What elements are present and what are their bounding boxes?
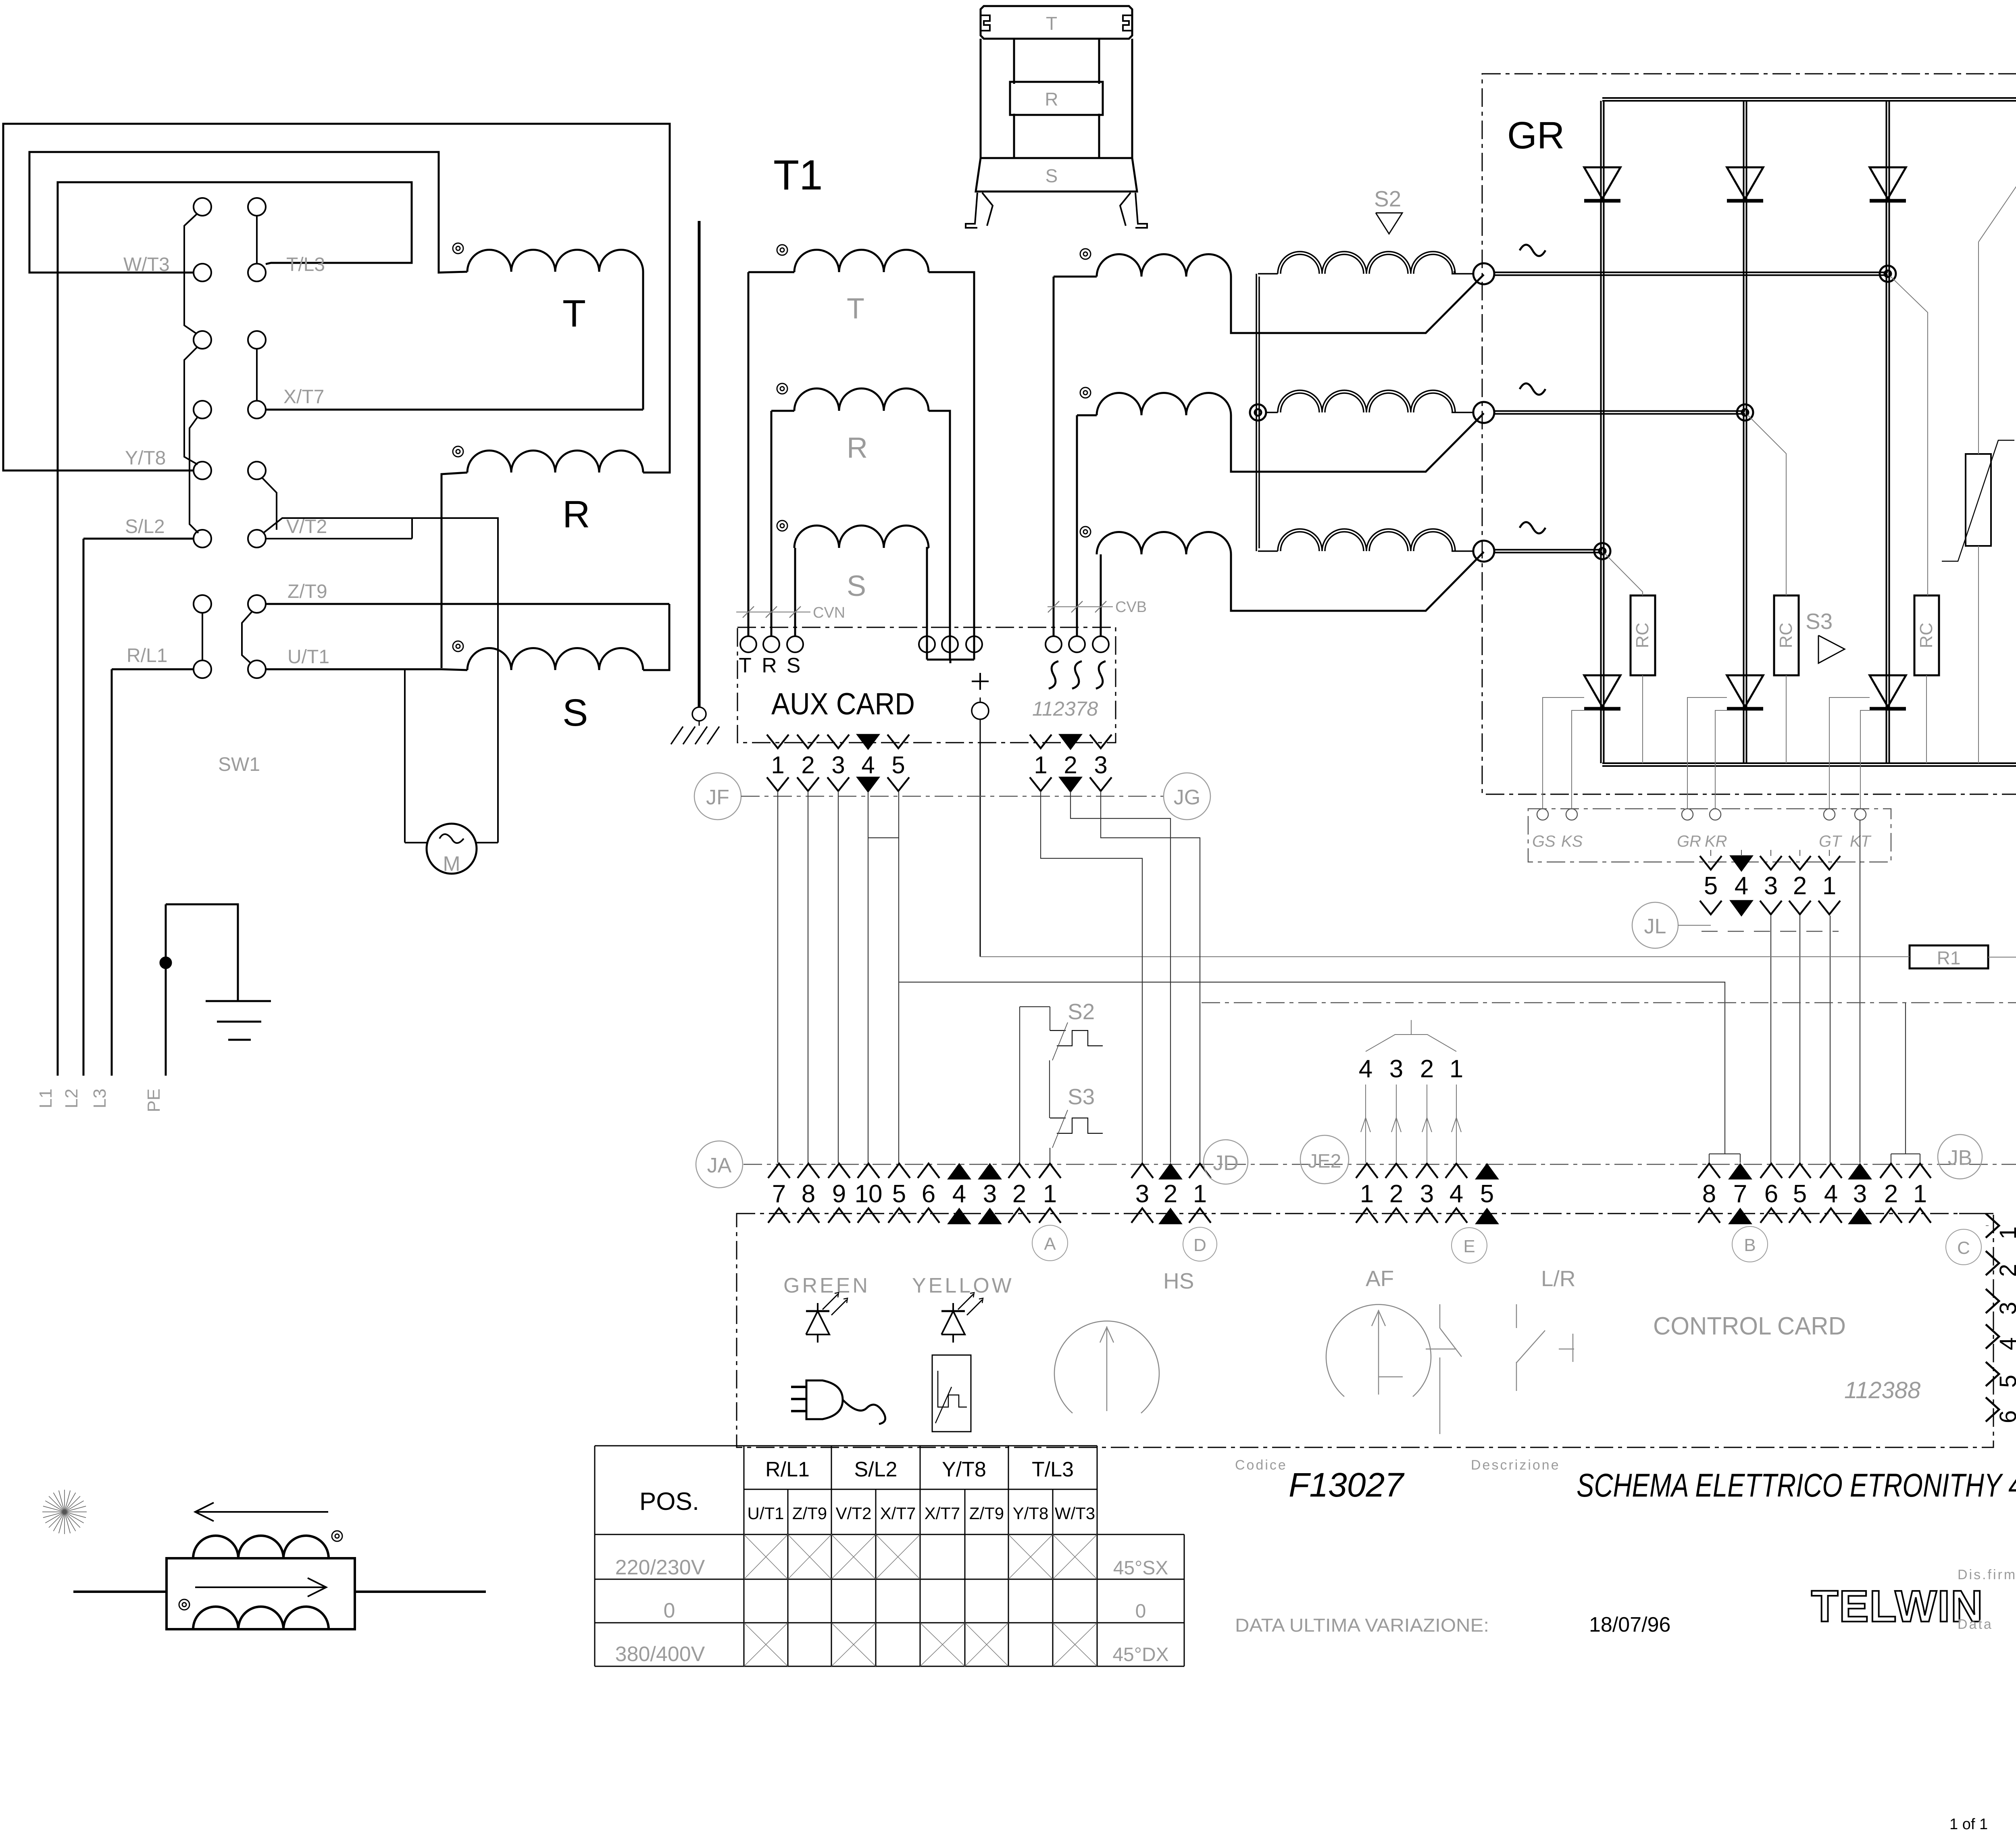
- JB 2-1 bracket: [1891, 1003, 1920, 1163]
- svg-text:1: 1: [1913, 1180, 1927, 1208]
- LED green: [806, 1293, 848, 1343]
- earth terminal circle: [692, 707, 706, 721]
- svg-text:L2: L2: [62, 1089, 81, 1108]
- wire JA2 to S2: [1020, 1007, 1050, 1164]
- svg-text:T/L3: T/L3: [286, 254, 325, 275]
- switch at AF: [1426, 1304, 1462, 1434]
- svg-text:9: 9: [832, 1180, 846, 1208]
- svg-text:2: 2: [1793, 872, 1807, 900]
- wire JF1-JA7: [777, 791, 778, 1163]
- svg-text:4: 4: [1995, 1337, 2016, 1350]
- label CONTROL CARD: [1653, 1312, 1846, 1340]
- svg-text:T/L3: T/L3: [1032, 1458, 1074, 1481]
- connector C circle: [1946, 1229, 1981, 1265]
- sensor stubs: [73, 1591, 486, 1593]
- T1 winding R: [771, 389, 950, 660]
- winding T (primary): [266, 250, 643, 410]
- T1 winding S2 dot: [1080, 527, 1091, 537]
- winding R (primary): [442, 451, 670, 668]
- wire V/T2 to motor right: [263, 518, 498, 843]
- wire JF4-JA10: [868, 792, 899, 1163]
- winding S (primary): [442, 604, 669, 670]
- svg-text:1 of 1: 1 of 1: [1949, 1816, 1988, 1832]
- svg-text:R/L1: R/L1: [127, 645, 167, 666]
- connector JB circle: [1938, 1135, 1982, 1179]
- line L2: [83, 539, 85, 1076]
- connector E circle: [1452, 1228, 1487, 1263]
- table label 0 right: [1135, 1601, 1146, 1622]
- wire to frame ground: [699, 721, 700, 726]
- table row label 0: [664, 1599, 675, 1622]
- svg-text:5: 5: [891, 752, 905, 779]
- label Dis.firma: [1958, 1567, 2016, 1582]
- svg-text:Z/T9: Z/T9: [969, 1504, 1004, 1523]
- label SW1: [218, 754, 260, 775]
- title SCHEMA ELETTRICO ETRONITHY 400: [1577, 1467, 2016, 1504]
- AC input node 3: [1473, 541, 1494, 562]
- svg-text:4: 4: [1450, 1180, 1463, 1208]
- SCR 1 (bottom): [1584, 675, 1620, 709]
- wire loop W/T3 to T-coil (second rectangle): [29, 152, 467, 273]
- T1 winding T dot: [777, 245, 787, 255]
- wire L2 to S/L2 contact: [83, 538, 194, 540]
- svg-text:Z/T9: Z/T9: [792, 1504, 827, 1523]
- T1 winding R2 dot: [1080, 387, 1091, 398]
- svg-text:L1: L1: [36, 1089, 56, 1108]
- SW1 link row3-row4 right: [256, 349, 258, 401]
- label T/L3: [286, 254, 325, 275]
- svg-text:JA: JA: [707, 1154, 732, 1177]
- T1 core middle bar: [1010, 82, 1103, 115]
- terminal T (CVN): [739, 636, 756, 677]
- AUX CARD boundary: [737, 627, 1116, 743]
- line PE with junction: [160, 904, 171, 1076]
- svg-text:Codice: Codice: [1235, 1457, 1287, 1473]
- svg-text:45°DX: 45°DX: [1112, 1644, 1168, 1665]
- svg-text:CONTROL CARD: CONTROL CARD: [1653, 1312, 1846, 1340]
- svg-text:S/L2: S/L2: [125, 516, 165, 537]
- svg-text:S2: S2: [1374, 186, 1401, 211]
- AC wire row 3 (double line): [1494, 550, 1602, 553]
- gate wire GS: [1543, 697, 1584, 809]
- svg-text:W/T3: W/T3: [1055, 1504, 1095, 1523]
- svg-text:6: 6: [1995, 1410, 2016, 1423]
- AC junction bullseye 1: [1880, 266, 1896, 282]
- label Z/T9: [287, 581, 327, 602]
- svg-text:JB: JB: [1948, 1146, 1972, 1170]
- sensor dots: [179, 1531, 342, 1610]
- svg-text:U/T1: U/T1: [747, 1504, 784, 1523]
- RC2 feed wire: [1747, 415, 1786, 595]
- label R (winding): [562, 493, 590, 536]
- svg-text:Z/T9: Z/T9: [287, 581, 327, 602]
- svg-text:SCHEMA ELETTRICO ETRONITHY 400: SCHEMA ELETTRICO ETRONITHY 400: [1577, 1467, 2016, 1504]
- svg-text:S/L2: S/L2: [854, 1458, 898, 1481]
- T1 winding R2: [1077, 393, 1484, 636]
- label Y/T8: [125, 448, 166, 469]
- svg-text:R: R: [762, 654, 777, 677]
- svg-text:7: 7: [772, 1180, 786, 1208]
- cathode wire KS: [1572, 710, 1600, 809]
- svg-text:T: T: [1046, 13, 1057, 34]
- snubber RC1: [1631, 595, 1655, 763]
- table label POS.: [639, 1488, 699, 1516]
- connector JD circle: [1204, 1140, 1248, 1184]
- T1 core top bar: [981, 6, 1132, 39]
- svg-text:3: 3: [1995, 1302, 2016, 1315]
- svg-text:KT: KT: [1850, 833, 1872, 850]
- table X marks row1: [744, 1534, 1097, 1579]
- potentiometer AF: [1326, 1305, 1431, 1397]
- switch SW1 contact circles: [194, 198, 266, 678]
- CVB cut line: [1048, 599, 1147, 616]
- connector JL circle: [1632, 902, 1711, 948]
- sensor box: [167, 1558, 355, 1629]
- svg-text:3: 3: [1094, 752, 1107, 779]
- svg-text:R: R: [847, 432, 868, 464]
- svg-text:18/07/96: 18/07/96: [1589, 1613, 1670, 1636]
- svg-text:Y/T8: Y/T8: [1013, 1504, 1049, 1523]
- T1 winding T2: [1054, 254, 1484, 636]
- label 112388: [1844, 1377, 1920, 1403]
- connector JF circle: [694, 773, 741, 820]
- wire aux+ to R1: [980, 956, 1910, 957]
- AC wire row 2 (double line): [1494, 411, 1745, 414]
- T1 winding S dot: [777, 520, 787, 531]
- svg-text:Y/T8: Y/T8: [942, 1458, 986, 1481]
- cathode wire KT: [1860, 710, 1885, 809]
- label R/L1: [127, 645, 167, 666]
- svg-text:6: 6: [922, 1180, 935, 1208]
- TELWIN logo: [1811, 1582, 1984, 1631]
- aux + output circle: [972, 697, 989, 957]
- sunburst mark 2: [42, 1490, 87, 1534]
- wire loop Y/T8 to R-coil (outer rectangle): [3, 124, 670, 473]
- label S (winding): [562, 691, 588, 734]
- RC1 feed wire: [1605, 554, 1643, 595]
- svg-text:8: 8: [802, 1180, 815, 1208]
- T1 label S: [847, 570, 866, 602]
- svg-text:L3: L3: [90, 1089, 110, 1108]
- cathode wire KR: [1715, 710, 1743, 809]
- aux + output marker: [972, 673, 989, 690]
- secondary winding R (double line): [1266, 390, 1473, 412]
- svg-text:1: 1: [1450, 1055, 1463, 1083]
- JE2 harness bracket: [1366, 1020, 1456, 1051]
- connector JC pins and wires to JH: [1986, 1214, 2016, 1423]
- table headers: [765, 1458, 1074, 1481]
- ~ mark 1: [1520, 245, 1545, 256]
- bridge column 2 (double line): [1744, 101, 1747, 763]
- svg-text:X/T7: X/T7: [880, 1504, 916, 1523]
- svg-text:CVB: CVB: [1115, 599, 1147, 616]
- gate wire GT: [1829, 697, 1870, 809]
- svg-text:KS: KS: [1561, 833, 1583, 850]
- svg-text:10: 10: [855, 1180, 883, 1208]
- secondary winding S (double line): [1258, 529, 1473, 551]
- connector JG pins: [1030, 735, 1112, 792]
- svg-text:380/400V: 380/400V: [615, 1643, 705, 1666]
- bridge column 1 (double line): [1601, 101, 1604, 763]
- T1 winding T: [748, 250, 974, 660]
- snubber RC3: [1914, 595, 1939, 763]
- label Descrizione: [1471, 1457, 1560, 1473]
- svg-text:B: B: [1744, 1235, 1756, 1255]
- connector line JA-JD-JE2-JB-JC: [744, 1164, 2016, 1165]
- T1 core legs: [966, 193, 1147, 228]
- diode D3 (top): [1870, 167, 1906, 201]
- svg-text:112388: 112388: [1844, 1377, 1920, 1403]
- wire KT to JB3: [1860, 820, 1860, 1163]
- motor M: [427, 824, 477, 876]
- secondary star-point bus: [1256, 274, 1259, 551]
- table X marks row3: [744, 1623, 1097, 1666]
- svg-text:T1: T1: [773, 152, 823, 199]
- svg-text:V/T2: V/T2: [286, 516, 327, 537]
- wire JG2-JD2: [1070, 791, 1170, 1163]
- table grid: [595, 1446, 1184, 1666]
- label Codice: [1235, 1457, 1287, 1473]
- svg-text:E: E: [1463, 1237, 1475, 1256]
- wire JF3-JA9: [838, 791, 839, 1163]
- table subheaders: [747, 1504, 1095, 1523]
- T1 core bottom skirt: [976, 158, 1137, 192]
- JE2 harness continuation arrows: [1359, 1055, 1463, 1163]
- label U/T1: [287, 646, 329, 668]
- svg-text:3: 3: [983, 1180, 997, 1208]
- code F13027: [1289, 1466, 1405, 1504]
- label PE: [144, 1089, 164, 1112]
- svg-text:2: 2: [1164, 1180, 1177, 1208]
- ~ mark 2: [1520, 383, 1545, 395]
- ground (earth) symbol: [206, 1001, 271, 1040]
- T1 winding S2: [1097, 532, 1484, 637]
- arrow left (sensor): [195, 1503, 328, 1521]
- svg-text:2: 2: [1389, 1180, 1403, 1208]
- svg-text:Data: Data: [1958, 1617, 1993, 1632]
- svg-text:GREEN: GREEN: [783, 1274, 870, 1297]
- dash-dot mid line: [1202, 1002, 2016, 1003]
- svg-text:4: 4: [1735, 872, 1748, 900]
- svg-text:RC: RC: [1633, 622, 1652, 648]
- svg-text:DATA ULTIMA VARIAZIONE:: DATA ULTIMA VARIAZIONE:: [1235, 1615, 1489, 1636]
- svg-text:2: 2: [1995, 1264, 2016, 1277]
- svg-text:3: 3: [831, 752, 845, 779]
- winding R polarity dot: [453, 446, 463, 457]
- svg-text:5: 5: [1995, 1375, 2016, 1388]
- connector D circle: [1183, 1227, 1217, 1261]
- svg-text:S: S: [1045, 165, 1058, 186]
- line L3: [111, 669, 113, 1076]
- switch L/R: [1516, 1304, 1574, 1391]
- svg-text:X/T7: X/T7: [283, 386, 324, 408]
- label V/T2: [286, 516, 327, 537]
- SW1 blade row1-row3 left: [184, 214, 197, 334]
- junction (star point): [1250, 404, 1266, 421]
- JL connector line: [1702, 931, 1839, 932]
- svg-text:5: 5: [1793, 1180, 1807, 1208]
- sensor coil bottom: [193, 1607, 329, 1629]
- page number 1 of 1 (center): [1949, 1816, 1988, 1832]
- svg-text:RC: RC: [1916, 622, 1936, 648]
- label GR: [1507, 114, 1565, 157]
- label S3 and marker: [1806, 609, 1845, 663]
- wire JG3-JD1: [1101, 791, 1200, 1163]
- svg-text:V/T2: V/T2: [836, 1504, 872, 1523]
- date 18/07/96: [1589, 1613, 1670, 1636]
- positive bus (bottom, double line): [1602, 763, 2016, 766]
- gate wire GR: [1687, 697, 1727, 809]
- svg-text:Dis.firma: Dis.firma: [1958, 1567, 2016, 1582]
- svg-text:5: 5: [892, 1180, 906, 1208]
- connector JA circle: [696, 1141, 743, 1188]
- svg-text:GR: GR: [1507, 114, 1565, 157]
- svg-text:JL: JL: [1644, 915, 1666, 938]
- label T (winding): [562, 292, 586, 335]
- T1 winding T2 dot: [1080, 249, 1091, 259]
- SW1 blade row5 right to V/T2: [262, 478, 277, 530]
- svg-text:S3: S3: [1806, 609, 1833, 634]
- SW1 link row1-row2 right (T/L3): [256, 216, 258, 264]
- CVN cut line: [736, 604, 845, 621]
- wires JL to JB: [1771, 916, 1830, 1163]
- svg-text:POS.: POS.: [639, 1488, 699, 1516]
- svg-text:1: 1: [1360, 1180, 1374, 1208]
- bridge column 3 (double line): [1887, 101, 1889, 763]
- table label 45 DX: [1112, 1644, 1168, 1665]
- svg-text:2: 2: [801, 752, 814, 779]
- T1 core label T: [1046, 13, 1057, 34]
- svg-text:A: A: [1044, 1234, 1056, 1254]
- switch S3: [1050, 1084, 1103, 1148]
- svg-text:KR: KR: [1705, 833, 1727, 850]
- secondary winding T (double line): [1258, 252, 1473, 274]
- SW1 link row7-row8 left: [202, 613, 203, 660]
- AC input node 2: [1473, 402, 1494, 423]
- svg-text:220/230V: 220/230V: [615, 1556, 705, 1579]
- wire U/T1 node: [266, 668, 442, 670]
- svg-text:R/L1: R/L1: [765, 1458, 810, 1481]
- svg-text:4: 4: [861, 752, 875, 779]
- wire loop T/L3 to line L1 (third rectangle) and line L1: [58, 182, 412, 1076]
- svg-text:4: 4: [1824, 1180, 1838, 1208]
- wire horizontal to JB7-8: [899, 982, 1725, 1154]
- AC wire row 1 (double line): [1494, 273, 1888, 275]
- T1 core verticals: [981, 39, 1132, 158]
- label GREEN: [783, 1274, 870, 1297]
- svg-text:PE: PE: [144, 1089, 164, 1112]
- svg-text:112378: 112378: [1032, 697, 1098, 720]
- svg-text:GT: GT: [1819, 833, 1842, 850]
- diode D2 (top): [1727, 167, 1763, 201]
- svg-text:C: C: [1957, 1238, 1970, 1258]
- sensor coil top: [193, 1536, 329, 1558]
- svg-text:4: 4: [1359, 1055, 1372, 1083]
- JF JG connector line: [741, 796, 1164, 797]
- label Data: [1958, 1617, 1993, 1632]
- svg-text:U/T1: U/T1: [287, 646, 329, 668]
- varistor: [1942, 108, 2016, 763]
- SW1 blade row4-row6 left: [190, 416, 198, 533]
- table label 45 SX: [1113, 1557, 1168, 1579]
- label L3: [90, 1089, 110, 1108]
- svg-text:W/T3: W/T3: [123, 254, 170, 275]
- AC junction bullseye 2: [1737, 404, 1753, 421]
- svg-text:3: 3: [1389, 1055, 1403, 1083]
- connector JB pins: [1698, 1164, 1931, 1224]
- svg-text:T: T: [562, 292, 586, 335]
- CVN secondary join: [919, 636, 982, 663]
- svg-text:M: M: [443, 852, 460, 876]
- svg-text:JG: JG: [1174, 786, 1200, 809]
- svg-text:AF: AF: [1366, 1266, 1394, 1291]
- wire R1 to plus node: [1988, 770, 2016, 957]
- svg-text:2: 2: [1884, 1180, 1898, 1208]
- T1 winding S: [794, 526, 929, 660]
- svg-text:R: R: [1045, 89, 1058, 110]
- svg-text:S: S: [847, 570, 866, 602]
- svg-text:3: 3: [1853, 1180, 1867, 1208]
- label HS: [1163, 1268, 1194, 1293]
- svg-text:RC: RC: [1776, 622, 1796, 648]
- SCR 2 (bottom): [1727, 675, 1763, 709]
- svg-text:JD: JD: [1213, 1151, 1239, 1175]
- wire motor left: [405, 669, 428, 843]
- svg-text:S: S: [787, 654, 801, 677]
- GR boundary box: [1482, 74, 2016, 794]
- svg-text:0: 0: [664, 1599, 675, 1622]
- svg-text:GR: GR: [1677, 833, 1701, 850]
- wire JG1-JD3: [1041, 791, 1142, 1163]
- thermostat box: [932, 1355, 971, 1432]
- RC3 feed wire: [1890, 276, 1928, 595]
- wire L3 to R/L1 contact: [112, 668, 194, 670]
- svg-text:1: 1: [1822, 872, 1836, 900]
- diode D1 (top): [1584, 167, 1620, 201]
- svg-text:1: 1: [1995, 1226, 2016, 1239]
- wire PE to earth: [166, 904, 238, 1001]
- connector JG circle: [1164, 773, 1210, 820]
- SW1 blade row3-row5 left: [184, 347, 198, 464]
- wire S3 to JA1: [1050, 1148, 1050, 1164]
- terminal R (CVN): [762, 636, 779, 677]
- svg-text:X/T7: X/T7: [925, 1504, 960, 1523]
- ~ mark 3: [1520, 522, 1545, 533]
- svg-text:F13027: F13027: [1289, 1466, 1405, 1504]
- mains plug symbol: [791, 1380, 885, 1424]
- svg-text:S2: S2: [1068, 999, 1095, 1024]
- svg-text:2: 2: [1012, 1180, 1026, 1208]
- label AUX CARD: [771, 687, 915, 721]
- winding T polarity dot: [453, 243, 463, 254]
- svg-text:6: 6: [1764, 1180, 1778, 1208]
- svg-text:5: 5: [1704, 872, 1718, 900]
- table row label 220/230V: [615, 1556, 705, 1579]
- wire S2 to S3: [1049, 1060, 1050, 1118]
- svg-text:3: 3: [1764, 872, 1778, 900]
- svg-text:3: 3: [1135, 1180, 1149, 1208]
- svg-text:3: 3: [1420, 1180, 1434, 1208]
- svg-text:R: R: [562, 493, 590, 536]
- svg-text:L/R: L/R: [1541, 1266, 1576, 1291]
- terminal S (CVN): [787, 636, 803, 677]
- svg-text:2: 2: [1420, 1055, 1434, 1083]
- svg-text:AUX CARD: AUX CARD: [771, 687, 915, 721]
- table row label 380/400V: [615, 1643, 705, 1666]
- negative bus (top, double line): [1602, 98, 2016, 101]
- svg-text:HS: HS: [1163, 1268, 1194, 1293]
- connector JL pins: [1700, 850, 1840, 916]
